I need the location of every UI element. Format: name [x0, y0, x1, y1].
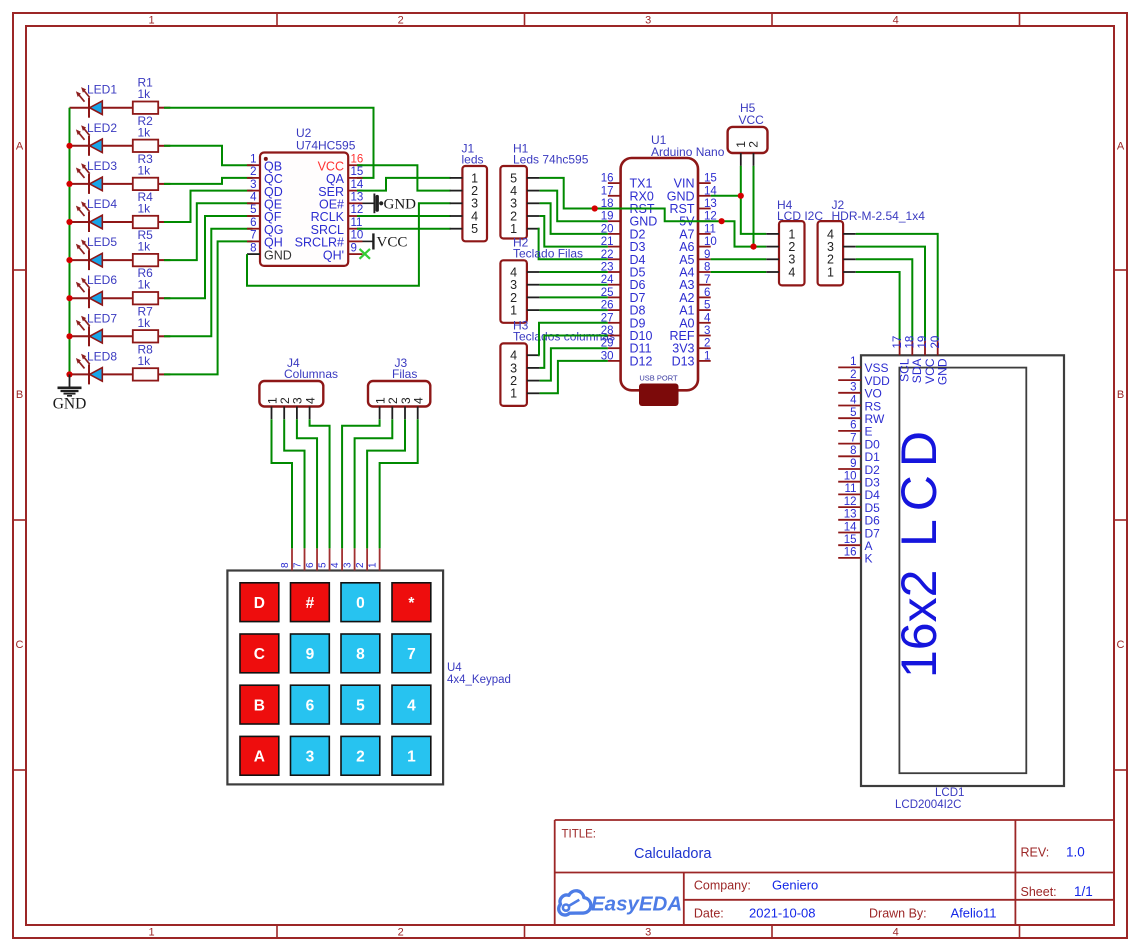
svg-text:4: 4	[303, 397, 317, 404]
keypad pin 2	[366, 548, 368, 570]
U2 pin 16 VCC	[348, 164, 362, 166]
svg-text:1k: 1k	[138, 278, 152, 292]
svg-text:GND: GND	[264, 248, 292, 262]
J3 pin 2	[391, 407, 393, 420]
keypad button 6	[291, 685, 330, 724]
U1 pin 21 D3	[608, 246, 621, 248]
svg-text:5: 5	[318, 562, 329, 568]
wire net R1 to QA	[164, 108, 374, 178]
svg-text:24: 24	[601, 274, 614, 286]
svg-text:3: 3	[250, 179, 256, 191]
svg-text:1: 1	[827, 265, 834, 279]
svg-text:*: *	[408, 595, 415, 612]
U1 pin 7 A3	[698, 284, 711, 286]
connector J4 body	[259, 381, 323, 407]
H1 pin 2	[527, 215, 540, 217]
keypad pin 1	[379, 548, 381, 570]
svg-text:1: 1	[510, 387, 517, 401]
svg-text:1k: 1k	[138, 316, 152, 330]
svg-text:REV:: REV:	[1021, 846, 1050, 860]
svg-text:16: 16	[844, 547, 857, 559]
H2 pin 3	[527, 284, 540, 286]
connector H3 body	[500, 343, 527, 406]
H5 pin 2	[753, 153, 755, 166]
svg-text:19: 19	[917, 336, 929, 349]
svg-text:22: 22	[601, 249, 614, 261]
title block texts	[562, 829, 1093, 921]
svg-text:D12: D12	[630, 354, 653, 368]
junction RST net	[592, 205, 598, 211]
H4 pin 1	[766, 233, 779, 235]
svg-text:13: 13	[704, 198, 717, 210]
svg-text:Columnas: Columnas	[284, 367, 338, 381]
svg-text:K: K	[865, 552, 873, 566]
svg-text:leds: leds	[462, 153, 484, 167]
H3 pin 4	[527, 354, 540, 356]
svg-text:0: 0	[356, 595, 365, 612]
svg-text:Arduino Nano: Arduino Nano	[651, 145, 725, 159]
svg-text:C: C	[1117, 639, 1125, 651]
svg-text:13: 13	[844, 509, 857, 521]
U1 pin 11 A7	[698, 233, 711, 235]
wire RST/5V through chip to H4.2	[595, 209, 767, 247]
H3 pin 3	[527, 367, 540, 369]
svg-text:4: 4	[250, 192, 257, 204]
svg-text:7: 7	[407, 646, 416, 663]
keypad button 7	[392, 634, 431, 673]
svg-text:B: B	[1117, 389, 1124, 401]
svg-text:1: 1	[407, 749, 416, 766]
wire J3.1 to keypad 4	[342, 419, 380, 548]
LCD1 pin 8 D1	[838, 455, 861, 457]
H4 pin 3	[766, 258, 779, 260]
svg-text:LED6: LED6	[87, 273, 117, 287]
LCD1 pin 17 SCL	[899, 341, 901, 356]
svg-text:A: A	[254, 749, 265, 766]
svg-text:B: B	[16, 389, 23, 401]
keypad button C	[240, 634, 279, 673]
wire H1.3 to D2	[540, 203, 608, 234]
wire H1.5 to RST	[540, 178, 608, 209]
svg-text:7: 7	[293, 562, 304, 568]
U1 pin 26 D8	[608, 309, 621, 311]
LCD1 pin 6 E	[838, 430, 861, 432]
svg-text:14: 14	[844, 521, 857, 533]
svg-text:LED8: LED8	[87, 349, 117, 363]
svg-text:7: 7	[250, 230, 256, 242]
svg-text:U4: U4	[447, 662, 462, 674]
U2 pin 4 QE	[247, 202, 260, 204]
svg-text:1: 1	[250, 153, 256, 165]
svg-text:4: 4	[704, 312, 711, 324]
H1 pin 3	[527, 202, 540, 204]
wire J4.4 to keypad 5	[310, 419, 330, 548]
svg-text:7: 7	[704, 274, 710, 286]
svg-text:1: 1	[148, 927, 154, 939]
svg-text:GND: GND	[936, 358, 950, 385]
svg-text:13: 13	[351, 192, 364, 204]
wire net VCC16 to J1.2	[357, 165, 451, 190]
svg-text:U74HC595: U74HC595	[296, 139, 356, 153]
H3 pin 1	[527, 392, 540, 394]
svg-text:16: 16	[601, 173, 614, 185]
keypad button #	[291, 583, 330, 622]
U1 pin 24 D6	[608, 284, 621, 286]
svg-text:B: B	[254, 697, 265, 714]
wire H2.1 to D8	[540, 309, 608, 311]
keypad pin 7	[304, 548, 306, 570]
svg-text:4: 4	[893, 15, 899, 27]
U1 pin 20 D2	[608, 233, 621, 235]
keypad button A	[240, 736, 279, 775]
J4 pin 3	[296, 407, 298, 420]
LCD1 pin 19 VCC	[924, 341, 926, 356]
junction LED bus row 8	[66, 371, 72, 377]
keypad button *	[392, 583, 431, 622]
svg-text:1: 1	[704, 350, 710, 362]
U1 pin 25 D7	[608, 296, 621, 298]
keypad button 2	[341, 736, 380, 775]
svg-text:Company:: Company:	[694, 879, 751, 893]
svg-text:17: 17	[892, 336, 904, 349]
U1 pin 4 A0	[698, 322, 711, 324]
svg-text:9: 9	[351, 242, 357, 254]
svg-text:14: 14	[351, 179, 364, 191]
svg-text:19: 19	[601, 211, 614, 223]
connector H2 body	[500, 260, 527, 323]
svg-text:1: 1	[510, 304, 517, 318]
J2 pin 3	[843, 246, 856, 248]
resistor R7	[133, 330, 171, 342]
U1 pin 29 D11	[608, 347, 621, 349]
svg-text:5: 5	[850, 407, 856, 419]
U2 pin 13 OE#	[348, 202, 362, 204]
svg-text:4: 4	[330, 562, 341, 568]
wire H3.3 to D10	[540, 336, 608, 368]
svg-text:1.0: 1.0	[1066, 845, 1085, 860]
svg-text:1: 1	[850, 356, 856, 368]
svg-text:VCC: VCC	[739, 113, 765, 127]
svg-text:1k: 1k	[138, 354, 152, 368]
svg-text:30: 30	[601, 350, 614, 362]
svg-text:3: 3	[645, 927, 651, 939]
keypad button 0	[341, 583, 380, 622]
keypad pin 8	[291, 548, 293, 570]
LCD1 pin 14 D7	[838, 532, 861, 534]
svg-text:27: 27	[601, 312, 614, 324]
U1 pin 16 TX1	[608, 182, 621, 184]
connector J3 body	[368, 381, 430, 407]
svg-text:3: 3	[343, 562, 354, 568]
svg-text:2: 2	[355, 562, 366, 568]
svg-text:2: 2	[250, 166, 256, 178]
LCD1 pin 7 D0	[838, 443, 861, 445]
svg-text:2: 2	[747, 141, 761, 148]
svg-text:12: 12	[351, 204, 364, 216]
svg-text:LED4: LED4	[87, 197, 117, 211]
LED LED5	[70, 240, 133, 271]
svg-text:4: 4	[788, 265, 795, 279]
wire J3.2 to keypad 3	[355, 419, 393, 548]
svg-text:15: 15	[844, 534, 857, 546]
LED LED2	[70, 125, 133, 156]
svg-text:Leds 74hc595: Leds 74hc595	[513, 153, 589, 167]
U2 pin 6 QG	[247, 228, 260, 230]
svg-text:6: 6	[850, 420, 856, 432]
U2 pin 11 SRCL	[348, 228, 362, 230]
wire net R7 to QG	[164, 229, 253, 337]
svg-text:11: 11	[704, 223, 716, 235]
svg-text:11: 11	[351, 217, 363, 229]
keypad pin 4	[341, 548, 343, 570]
LCD1 pin 2 VDD	[838, 379, 861, 381]
wire H2.2 to D7	[540, 296, 608, 298]
svg-text:4: 4	[412, 397, 426, 404]
svg-text:1: 1	[148, 15, 154, 27]
svg-text:11: 11	[845, 483, 857, 495]
EasyEDA logo	[559, 891, 683, 916]
svg-text:18: 18	[905, 336, 917, 349]
LCD1 pin 12 D5	[838, 506, 861, 508]
svg-text:7: 7	[850, 432, 856, 444]
svg-text:LED7: LED7	[87, 311, 117, 325]
svg-text:USB PORT: USB PORT	[639, 374, 678, 383]
svg-text:VCC: VCC	[377, 234, 408, 250]
svg-text:6: 6	[704, 287, 710, 299]
H1 pin 4	[527, 190, 540, 192]
connector H5 body	[728, 127, 768, 153]
display LCD1 inner window	[899, 368, 1026, 774]
LCD1 pin 11 D4	[838, 493, 861, 495]
svg-text:4: 4	[407, 697, 416, 714]
wire net R6 to QF	[164, 216, 253, 298]
svg-text:4x4_Keypad: 4x4_Keypad	[447, 674, 511, 686]
svg-text:5: 5	[250, 204, 256, 216]
LCD1 pin 3 VO	[838, 392, 861, 394]
svg-text:QH': QH'	[323, 248, 344, 262]
J1 pin 2	[450, 190, 463, 192]
wire J3.4 to keypad 1	[380, 419, 418, 548]
J2 pin 2	[843, 258, 856, 260]
keypad button 9	[291, 634, 330, 673]
svg-text:2021-10-08: 2021-10-08	[749, 906, 816, 921]
svg-text:4: 4	[893, 927, 899, 939]
svg-text:C: C	[254, 646, 265, 663]
svg-text:28: 28	[601, 325, 614, 337]
svg-text:6: 6	[305, 562, 316, 568]
J2 pin 4	[843, 233, 856, 235]
U2 pin 15 QA	[348, 177, 362, 179]
H5 pin 1	[740, 153, 742, 166]
wire A5 to H4.3	[711, 258, 767, 260]
J1 pin 3	[450, 202, 463, 204]
svg-text:8: 8	[850, 445, 856, 457]
U2 pin 8 GND	[247, 253, 260, 255]
keypad button D	[240, 583, 279, 622]
svg-text:10: 10	[704, 236, 717, 248]
wire A4 to H4.4	[711, 271, 767, 273]
wire net GND8 to J1.3	[247, 203, 451, 285]
U1 pin 2 3V3	[698, 347, 711, 349]
U1 pin 15 VIN	[698, 182, 711, 184]
svg-text:LED2: LED2	[87, 121, 117, 135]
wire H2.4 to D5	[540, 271, 608, 273]
svg-text:8: 8	[704, 262, 710, 274]
U2 pin 5 QF	[247, 215, 260, 217]
svg-text:15: 15	[704, 173, 717, 185]
U1 pin 9 A5	[698, 258, 711, 260]
LED LED1	[70, 87, 133, 118]
display LCD1 outer body	[861, 355, 1064, 786]
svg-text:EasyEDA: EasyEDA	[591, 893, 682, 916]
U1 pin 6 A2	[698, 296, 711, 298]
svg-text:17: 17	[601, 185, 614, 197]
U2 pin1 marker dot	[264, 157, 268, 161]
svg-text:Teclado Filas: Teclado Filas	[513, 247, 583, 261]
svg-text:LED3: LED3	[87, 159, 117, 173]
power flag VCC at U2 SRCLR#	[363, 233, 374, 249]
svg-text:6: 6	[250, 217, 256, 229]
svg-text:LCD1: LCD1	[935, 787, 964, 799]
svg-text:10: 10	[351, 230, 364, 242]
U2 pin 9 QH'	[348, 253, 362, 255]
svg-text:26: 26	[601, 300, 614, 312]
junction LED bus row 7	[66, 333, 72, 339]
U2 pin 14 SER	[348, 190, 362, 192]
svg-text:12: 12	[844, 496, 857, 508]
svg-text:20: 20	[601, 223, 614, 235]
resistor R2	[133, 140, 171, 152]
keypad button 8	[341, 634, 380, 673]
resistor R1	[133, 102, 171, 114]
LCD1 pin 18 SDA	[911, 341, 913, 356]
wire J2.1 to LCD pin 17	[856, 272, 900, 341]
U1 pin 3 REF	[698, 335, 711, 337]
LED LED8	[70, 354, 133, 385]
LCD1 pin 5 RW	[838, 417, 861, 419]
svg-text:A: A	[16, 141, 24, 153]
svg-text:1: 1	[368, 562, 379, 568]
svg-text:2: 2	[850, 369, 856, 381]
U1 pin 17 RX0	[608, 195, 621, 197]
J2 pin 1	[843, 271, 856, 273]
svg-text:3: 3	[306, 749, 315, 766]
wire H1.4 to GND	[540, 191, 608, 222]
svg-text:GND: GND	[384, 197, 417, 213]
svg-text:2: 2	[356, 749, 365, 766]
svg-text:GND: GND	[53, 396, 87, 413]
microcontroller U1 Arduino Nano body	[621, 158, 698, 390]
wire H1.1 to D4	[539, 229, 608, 260]
wire J2.4 to LCD pin 20	[856, 234, 938, 341]
U1 pin 10 A6	[698, 246, 711, 248]
H4 pin 4	[766, 271, 779, 273]
U1 pin 28 D10	[608, 335, 621, 337]
svg-text:Date:: Date:	[694, 907, 724, 921]
J1 pin 1	[450, 177, 463, 179]
svg-text:LCD I2C: LCD I2C	[777, 209, 823, 223]
wire J4.2 to keypad 7	[284, 419, 304, 548]
keypad button 3	[291, 736, 330, 775]
J3 pin 3	[404, 407, 406, 420]
U1 pin 14 GND	[698, 195, 711, 197]
junction H4.2 net	[750, 244, 756, 250]
U1 pin 13 RST	[698, 208, 711, 210]
U1 pin 5 A1	[698, 309, 711, 311]
wire J4.3 to keypad 6	[297, 419, 317, 548]
wire H3.1 to D12	[540, 361, 608, 393]
svg-text:LED5: LED5	[87, 235, 117, 249]
wire H5.1 / U1 GND to H4.1	[741, 166, 767, 234]
U1 pin 23 D5	[608, 271, 621, 273]
wire H5.2 down	[753, 166, 755, 247]
U2 pin 1 QB	[247, 164, 260, 166]
svg-text:9: 9	[850, 458, 856, 470]
svg-text:10: 10	[844, 471, 857, 483]
svg-text:C: C	[16, 639, 24, 651]
U1 pin 8 A4	[698, 271, 711, 273]
svg-text:Sheet:: Sheet:	[1021, 885, 1057, 899]
keypad pin 6	[316, 548, 318, 570]
svg-text:3: 3	[704, 325, 710, 337]
keypad U4 body	[227, 571, 443, 785]
ground GND (LED bus)	[58, 374, 82, 395]
svg-text:TITLE:: TITLE:	[562, 829, 597, 841]
junction GND net	[738, 193, 744, 199]
svg-text:1k: 1k	[138, 202, 152, 216]
H2 pin 2	[527, 296, 540, 298]
keypad button B	[240, 685, 279, 724]
wire U1 GND pin stub join	[711, 195, 741, 197]
svg-text:2: 2	[398, 15, 404, 27]
connector J1 body	[462, 166, 487, 241]
LCD1 pin 20 GND	[937, 341, 939, 356]
svg-text:5: 5	[471, 222, 478, 236]
svg-text:9: 9	[704, 249, 710, 261]
H1 pin 1	[527, 228, 540, 230]
resistor R4	[133, 216, 171, 228]
svg-text:1k: 1k	[138, 163, 152, 177]
svg-text:Geniero: Geniero	[772, 878, 818, 893]
J4 pin 2	[283, 407, 285, 420]
svg-text:3: 3	[645, 15, 651, 27]
svg-text:15: 15	[351, 166, 364, 178]
wire J4.1 to keypad 8	[272, 419, 293, 548]
svg-text:2: 2	[704, 338, 710, 350]
junction LED bus row 6	[66, 295, 72, 301]
J1 pin 5	[450, 228, 463, 230]
LCD1 pin 10 D3	[838, 481, 861, 483]
svg-text:6: 6	[306, 697, 315, 714]
wire net R5 to QE	[164, 203, 253, 260]
wire J2.3 to LCD pin 19	[856, 247, 925, 341]
U1 pin 19 GND	[608, 220, 621, 222]
wire H2.3 to D6	[540, 284, 608, 286]
svg-text:8: 8	[250, 242, 256, 254]
U1 pin 12 5V	[698, 220, 711, 222]
wire net R4 to QD	[164, 191, 253, 222]
junction LED bus row 3	[66, 181, 72, 187]
LCD1 pin 9 D2	[838, 468, 861, 470]
svg-text:A: A	[1117, 141, 1125, 153]
wire net RCLK to J1.4	[357, 215, 451, 217]
LED LED7	[70, 316, 133, 347]
power flag GND at U2 OE#	[363, 194, 384, 214]
LED LED6	[70, 278, 133, 309]
H4 pin 2	[766, 246, 779, 248]
keypad button 1	[392, 736, 431, 775]
U1 pin 30 D12	[608, 360, 621, 362]
